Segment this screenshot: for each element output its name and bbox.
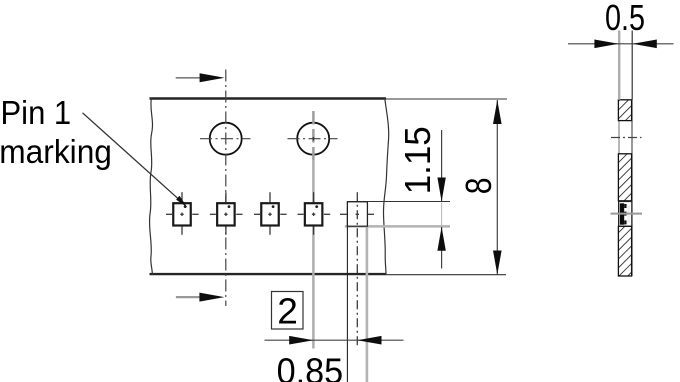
svg-text:0.5: 0.5 <box>605 0 645 38</box>
pocket P1 center lines <box>166 192 199 235</box>
dim 0.5 left arrow (right-pointing) <box>594 40 618 49</box>
dim 8 bottom arrow (down) <box>493 251 502 275</box>
svg-text:Pin 1: Pin 1 <box>1 94 72 131</box>
1.15 lower reference line gray (pocket5 bottom ext) <box>345 225 450 228</box>
side hatch block 1 <box>618 100 631 121</box>
dim 0.5 right arrow (left-pointing) <box>633 40 657 49</box>
dim 0.5 line <box>568 43 674 45</box>
dim 2 line <box>265 339 404 341</box>
pocket P2 <box>217 203 235 225</box>
pocket P4 center lines <box>298 192 331 235</box>
svg-text:2: 2 <box>277 291 298 331</box>
0.5 left extension gray <box>618 31 620 100</box>
feed direction arrow top <box>176 77 202 79</box>
tape top edge <box>150 97 387 99</box>
dim 8 line <box>496 100 498 275</box>
side hatch block 3 <box>618 226 631 276</box>
0.85 left extension line <box>346 202 348 382</box>
tape bottom edge extension (dim 8) <box>386 274 506 276</box>
side view strip right edge <box>631 100 633 276</box>
dim 1.15 line upper segment <box>441 130 443 201</box>
feed direction arrow bottom <box>176 296 202 298</box>
pocket P3 center lines <box>254 192 287 235</box>
side component in pocket <box>620 203 624 224</box>
pocket P3 pin1 dot <box>272 205 275 208</box>
side pocket <box>619 202 632 227</box>
1.15 upper reference line (pocket5 top ext) <box>347 201 450 203</box>
sprocket hole H1 <box>210 123 242 155</box>
H2 horizontal center line <box>288 138 338 140</box>
tape bottom edge <box>150 273 387 275</box>
side pocket center line gray <box>611 213 643 215</box>
0.5 right extension <box>631 31 633 100</box>
pocket P1 <box>173 203 191 225</box>
tape left break line <box>149 98 152 275</box>
tape right break line <box>384 98 389 275</box>
side hatch block 2 <box>618 154 631 201</box>
box for dim 2 <box>272 292 304 330</box>
0.85 right extension line gray <box>366 203 369 382</box>
svg-text:1.15: 1.15 <box>397 126 438 194</box>
pocket P2 center lines <box>210 192 243 235</box>
leader line to pin 1 marking <box>83 113 182 202</box>
leader arrowhead <box>176 196 187 208</box>
svg-text:marking: marking <box>0 133 112 170</box>
tape top edge extension (dim 8) <box>386 98 507 100</box>
pocket P4 <box>305 203 323 225</box>
dim 2 right arrow (left-pointing) <box>357 336 381 345</box>
side sprocket hole center line <box>611 137 642 139</box>
H2 vertical center line (gray) <box>312 111 315 161</box>
svg-text:0.85: 0.85 <box>277 352 344 382</box>
dim 1.15 line lower segment <box>441 227 443 269</box>
pocket P5 <box>347 202 367 226</box>
pocket P1 pin1 dot <box>184 205 187 208</box>
dim 8 top arrow (up) <box>493 100 502 124</box>
dim 1.15 lower arrow (up) <box>437 227 445 251</box>
pocket P4 pin1 dot <box>315 205 318 208</box>
sprocket hole H2 <box>297 123 329 155</box>
pocket P3 <box>261 203 279 225</box>
side view strip left edge <box>618 100 620 276</box>
H1 horizontal center line <box>200 138 251 140</box>
dim 2 left arrow (right-pointing) <box>289 336 313 345</box>
svg-text:8: 8 <box>459 177 499 194</box>
gray extension line pocket4/H2 center <box>312 160 315 349</box>
H1 vertical center line <box>225 70 227 307</box>
dim 1.15 upper arrow (down) <box>437 178 445 202</box>
pocket P2 pin1 dot <box>228 205 231 208</box>
pocket P5 center lines <box>340 213 374 215</box>
dim 1.15 faint middle segment <box>441 203 443 227</box>
